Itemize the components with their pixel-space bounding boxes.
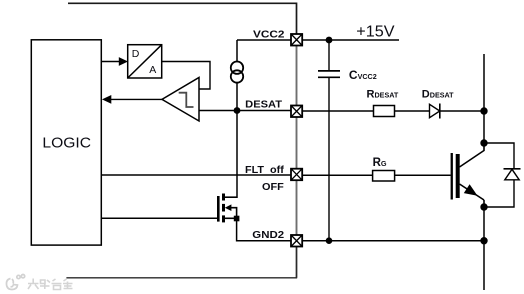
wire mosfet source to GND2 [237, 218, 291, 240]
svg-text:DESAT: DESAT [245, 100, 282, 111]
resistor RDESAT [374, 106, 395, 117]
svg-text:FLT off: FLT off [245, 165, 285, 176]
current source I1 [231, 40, 243, 108]
wire emitter to GND2 [483, 207, 485, 241]
wire DDESAT to collector rail [440, 110, 484, 112]
wire FLT off net [101, 174, 291, 176]
node emitter GND2 junction [480, 237, 487, 244]
wire +15V supply segment [302, 39, 399, 41]
wire collector to freewheel diode [484, 143, 514, 169]
wire DAC to comparator input [162, 62, 210, 90]
pin VCC2 [291, 34, 302, 46]
wire logic to mosfet gate [101, 217, 217, 219]
svg-text:RDESAT: RDESAT [367, 88, 399, 100]
svg-text:DDESAT: DDESAT [422, 88, 454, 100]
wire comparator input from DESAT node [199, 110, 237, 112]
wire freewheel diode to emitter [484, 180, 514, 207]
node GND2 capacitor junction [326, 237, 333, 244]
node collector [480, 139, 487, 146]
resistor RG [373, 171, 395, 182]
wire DESAT sense vertical (node to mosfet drain) [225, 111, 237, 198]
svg-text:RG: RG [373, 157, 387, 169]
svg-text:LOGIC: LOGIC [42, 135, 91, 151]
svg-text:+15V: +15V [356, 24, 395, 41]
DAC block [128, 45, 162, 78]
node emitter [480, 203, 487, 210]
transistor Q2 mosfet [217, 194, 237, 223]
wire top supply line [68, 3, 297, 34]
wire OFF pin to RG [302, 174, 372, 176]
wire comparator output to logic [102, 95, 162, 104]
wire VCC2 net left segment [237, 39, 291, 41]
watermark logo [6, 275, 24, 290]
wire logic to DAC [101, 57, 128, 66]
wire RG to IGBT gate [395, 174, 451, 176]
watermark text [28, 279, 73, 290]
svg-text:CVCC2: CVCC2 [349, 68, 377, 82]
wire DESAT pin to RDESAT [302, 110, 373, 112]
svg-text:D: D [132, 48, 140, 60]
wire below GND2 [483, 241, 485, 290]
diode D2 freewheel [504, 169, 521, 180]
node DESAT junction [234, 107, 241, 114]
transistor Q1 IGBT [451, 143, 484, 207]
svg-text:GND2: GND2 [252, 230, 284, 241]
pin OFF [291, 169, 302, 181]
capacitor C1 CVCC2 [318, 40, 340, 241]
logic block [31, 40, 101, 245]
node mosfet source junction [234, 216, 240, 222]
wire GND2 pin to bottom left [66, 247, 296, 278]
pin DESAT [291, 106, 302, 118]
diode DDESAT [430, 104, 440, 119]
wire RDESAT to DDESAT [395, 110, 430, 112]
wire pin rail (chip boundary) [296, 34, 298, 278]
svg-text:A: A [149, 64, 156, 76]
wire collector rail [483, 54, 485, 143]
node DESAT sense on rail [480, 107, 487, 114]
op-amp comparator U1 [162, 78, 199, 122]
svg-text:VCC2: VCC2 [253, 29, 285, 40]
svg-text:OFF: OFF [262, 182, 284, 193]
wire DESAT net to pin [237, 110, 291, 112]
wire GND2 net [302, 240, 484, 242]
pin GND2 [291, 235, 302, 247]
node VCC2 junction [326, 37, 333, 44]
